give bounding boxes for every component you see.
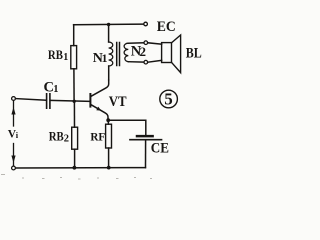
scan noise specks bottom [1, 174, 152, 180]
svg-text:CE: CE [151, 141, 169, 157]
transformer primary N1 [109, 25, 113, 67]
wire emitter to CE [108, 120, 146, 135]
svg-text:i: i [16, 130, 19, 140]
resistor RF [106, 120, 112, 167]
transistor VT [90, 80, 108, 120]
node base junction [73, 100, 76, 103]
capacitor C1 [47, 94, 50, 108]
svg-text:BL: BL [186, 45, 202, 61]
svg-text:1: 1 [53, 84, 58, 95]
terminal N2 top [144, 41, 148, 45]
source Vi input terminals [11, 97, 15, 170]
terminal EC [144, 22, 148, 26]
speaker BL [162, 35, 181, 73]
svg-text:VT: VT [109, 94, 127, 110]
node RF bottom [107, 166, 111, 170]
transformer secondary N2 [124, 43, 144, 62]
wire N2 bottom to speaker [148, 60, 162, 62]
wire input to C1 [16, 99, 46, 101]
node emitter junction [106, 118, 110, 122]
node RB2 bottom [73, 166, 77, 170]
svg-text:1: 1 [102, 51, 108, 65]
resistor RB1 [71, 25, 77, 102]
svg-text:EC: EC [157, 19, 176, 35]
svg-text:2: 2 [140, 44, 147, 59]
wire bottom rail [16, 167, 146, 169]
svg-text:RF: RF [90, 132, 105, 144]
svg-text:2: 2 [64, 134, 69, 145]
terminal N2 bottom [144, 60, 148, 64]
wire C1 to base [51, 99, 90, 102]
wire collector to N1 [108, 66, 110, 80]
node top rail junction [107, 23, 110, 26]
wire N2 top to speaker [148, 43, 162, 44]
resistor RB2 [72, 101, 78, 167]
svg-text:RB: RB [48, 47, 63, 62]
svg-text:5: 5 [164, 90, 173, 109]
figure number 5 circle [160, 90, 178, 108]
svg-text:RB: RB [49, 129, 64, 144]
svg-text:1: 1 [63, 52, 68, 63]
capacitor CE [130, 136, 162, 168]
transformer core [117, 43, 120, 66]
wire top rail [74, 23, 144, 26]
